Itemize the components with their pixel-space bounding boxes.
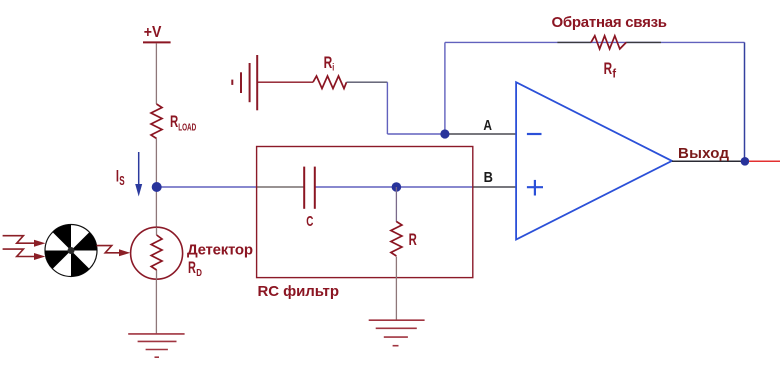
output red wire to edge [749, 160, 780, 162]
svg-text:S: S [119, 173, 125, 188]
wire node B down to R [395, 187, 397, 222]
svg-text:A: A [483, 118, 492, 134]
wire inside box to capacitor left plate [257, 186, 304, 188]
detector internal stubs [156, 228, 158, 236]
svg-text:RC фильтр: RC фильтр [258, 283, 340, 300]
radiation arrow 3 (wheel to detector) [97, 246, 131, 257]
wire +V to R_LOAD [155, 43, 157, 104]
RC filter box [257, 147, 473, 278]
resistor R_f [591, 36, 626, 49]
ground under R [369, 320, 425, 346]
svg-text:R: R [170, 112, 178, 131]
svg-text:R: R [409, 231, 417, 249]
wire detector to ground [155, 279, 157, 334]
power +V rail bar [143, 41, 171, 43]
radiation arrow 2 [3, 249, 46, 260]
wire capacitor right plate to node B [315, 186, 396, 188]
op-amp minus sign [527, 133, 542, 135]
wire R_i to corner [347, 81, 388, 83]
svg-text:Выход: Выход [678, 145, 729, 162]
output node [741, 157, 750, 166]
wire node A to op-amp minus input [445, 133, 516, 135]
svg-text:Обратная связь: Обратная связь [552, 14, 668, 31]
node junction B [392, 182, 402, 192]
svg-text:R: R [604, 59, 613, 78]
sideways ground (R_i input) [232, 55, 257, 110]
op-amp U1 [516, 82, 672, 239]
wire node1 to capacitor (signal line) [157, 186, 257, 188]
feedback dark segment left of R_f [557, 41, 591, 43]
svg-text:R: R [188, 258, 196, 277]
svg-text:i: i [332, 63, 334, 74]
wire R to ground [395, 257, 397, 321]
node junction A [440, 129, 449, 138]
resistor R_i [313, 76, 347, 89]
svg-text:LOAD: LOAD [178, 122, 196, 133]
svg-text:+V: +V [144, 24, 162, 41]
current arrow Is [135, 152, 142, 197]
feedback top wire [445, 41, 745, 43]
wire ground to R_i [257, 81, 313, 83]
ground under detector [128, 334, 184, 357]
op-amp plus sign [527, 180, 543, 196]
resistor R [391, 222, 402, 257]
resistor R_LOAD [151, 104, 162, 139]
feedback right wire down to output node [744, 42, 746, 161]
svg-text:C: C [306, 214, 313, 230]
svg-text:Детектор: Детектор [187, 242, 253, 259]
svg-text:B: B [484, 169, 493, 186]
wire node A up (feedback left) [444, 42, 446, 134]
wire node B to box right edge [396, 186, 472, 188]
capacitor C plates [303, 167, 305, 209]
wire B line to op-amp plus input [473, 186, 516, 188]
detector resistor zigzag [151, 235, 162, 270]
chopper wheel [45, 224, 97, 276]
svg-text:R: R [324, 53, 333, 72]
svg-text:D: D [196, 268, 202, 279]
wire corner down [386, 82, 388, 134]
output wire from op-amp tip [672, 160, 745, 162]
feedback dark segment right of R_f [626, 41, 661, 43]
detector circle [131, 227, 183, 279]
node junction node1 [152, 182, 162, 192]
wire R_LOAD to node1 [155, 139, 157, 188]
wire corner to node A [387, 133, 445, 135]
radiation arrow 1 [3, 236, 46, 247]
wire node1 down to detector [155, 187, 157, 228]
